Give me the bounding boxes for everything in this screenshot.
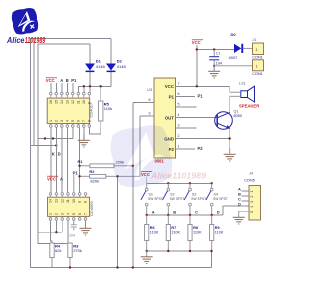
IC U2 pins top [49,193,87,198]
wire R2 junction down to bottom bus [117,176,119,267]
wire U3 pin3 stub [176,127,197,129]
IC U2 pin numbers bottom row [49,213,88,215]
svg-text:5: 5 [250,211,254,213]
svg-text:D: D [238,202,241,207]
wire speaker bottom to Q1 collector [229,96,231,113]
svg-text:4: 4 [66,120,70,122]
junction dots resistor bus [146,250,213,252]
svg-text:P1: P1 [169,94,175,99]
svg-text:4: 4 [66,213,70,215]
junction dots top bus [44,85,102,147]
svg-text:B: B [66,78,69,83]
wire IC2 pin4 to R3 [67,220,69,243]
wire U3 pin1 stub [176,148,196,150]
svg-text:VCC: VCC [192,40,201,45]
switch S4 [206,183,228,215]
wire mid-left vertical [33,39,35,146]
wire R5 top [100,86,102,101]
wire speaker top riser [229,86,231,92]
diode D2 [106,59,126,73]
svg-text:7: 7 [178,82,180,86]
wire IC1 pin7 gnd stub [83,127,85,140]
svg-text:A: A [60,177,63,182]
svg-text:8: 8 [149,98,151,102]
svg-text:U3: U3 [147,87,153,92]
switch S2 [163,183,185,215]
wire switch resistor bus [147,250,212,252]
svg-text:CON1: CON1 [252,56,263,60]
ground below C1 [208,65,220,78]
svg-text:B: B [173,210,176,215]
svg-text:VCC: VCC [165,84,175,89]
wire IC1 B stub [66,83,68,92]
svg-text:14: 14 [60,100,64,104]
wire U3 pin6 stub [176,96,196,98]
wire K net IC1 pin1 to IC2 pin1 [50,127,52,192]
wire IC1 pin5 stub [72,127,74,138]
svg-text:3: 3 [60,213,64,215]
wire VCC switch stub [146,176,148,183]
svg-text:LS1: LS1 [239,82,246,86]
wire IC2 pin2 down [55,220,57,232]
svg-text:VCC: VCC [47,177,56,182]
svg-text:SW SPST: SW SPST [213,197,228,201]
svg-text:P2: P2 [198,146,204,151]
wire node bus [147,214,223,216]
svg-text:SW SPST: SW SPST [170,197,185,201]
wire outer to R3 top [38,139,70,246]
svg-text:CD4069: CD4069 [89,201,94,216]
svg-text:2: 2 [178,134,180,138]
connector J4 [244,171,260,220]
diode D0 [229,32,253,60]
svg-text:1: 1 [49,213,53,215]
logo watermark text Alice1101989 [6,36,46,45]
svg-text:3: 3 [250,201,254,203]
svg-text:C1: C1 [216,52,221,56]
svg-text:13: 13 [66,100,70,104]
junction dot C1 J2 [213,65,215,67]
resistor R8 [188,215,202,251]
IC U2 pin numbers top row [49,199,88,203]
wire R5 bottom to IC1 pin8 [89,121,100,134]
net label VCC switches [141,171,152,176]
svg-text:8050: 8050 [234,114,242,118]
wire IC1 pin15 stub [55,83,57,92]
svg-text:D0: D0 [231,32,237,37]
wire IC2 pin7 gnd stub [85,220,87,227]
wire J4 pin3 stub [242,200,250,202]
diode D1 [85,59,105,73]
wire VCC stub [196,45,198,50]
wire IC1 pin3 to IC2 pin3 [61,127,63,192]
svg-text:D: D [58,152,61,157]
svg-text:K: K [52,152,55,157]
wire IC1 VCC stub [50,83,52,92]
svg-text:2: 2 [55,120,59,122]
net label VCC top [192,40,203,45]
svg-text:4148: 4148 [96,64,106,69]
svg-text:7: 7 [82,120,86,122]
svg-text:1: 1 [250,191,254,193]
wire J4 pin1 stub [242,190,250,192]
svg-text:D: D [217,210,220,215]
IC U1 pin numbers top row [49,100,92,104]
svg-text:110K: 110K [150,231,159,235]
wire D1 to bus and IC1 pin9 [89,72,91,93]
svg-text:SW SPST: SW SPST [148,197,163,201]
svg-text:R7: R7 [171,226,176,230]
svg-text:P1: P1 [198,94,204,99]
svg-text:62k: 62k [55,248,61,253]
svg-text:104: 104 [69,234,75,238]
wire rail under IC1 lower [30,145,56,147]
svg-text:P1: P1 [71,78,77,83]
svg-text:1101989: 1101989 [25,36,46,45]
svg-text:A: A [152,210,155,215]
wire rail under IC1 upper [38,138,73,140]
resistor R7 [166,215,180,251]
svg-text:4148: 4148 [117,64,127,69]
wire switch rail [147,182,212,184]
ground under IC1 [78,134,90,147]
wire U3 pin5 stub [176,106,197,108]
svg-text:11: 11 [66,199,70,203]
junction dots VCC rail [196,48,216,87]
svg-text:S1: S1 [148,192,153,196]
ground on resistor bus [141,251,153,264]
wire U3 pinB stub [140,115,154,117]
wire rail below IC2 [38,231,62,233]
svg-text:SPEAKER: SPEAKER [239,103,259,108]
transistor Q1 8050 [215,112,233,130]
svg-text:7: 7 [84,213,88,215]
svg-text:820k: 820k [90,179,99,184]
resistor R5 [99,101,113,121]
wire U3 pinA stub [133,101,154,103]
svg-text:5: 5 [72,213,76,215]
svg-text:6: 6 [77,120,81,122]
svg-text:R8: R8 [193,226,198,230]
wire IC1 pin4 to IC2 pin4 [66,127,68,192]
svg-text:270k: 270k [73,248,82,253]
svg-text:12: 12 [71,100,75,104]
junction dots node bus [146,214,213,216]
svg-text:13: 13 [55,199,59,203]
svg-text:12: 12 [60,199,64,203]
switch S3 [184,183,206,215]
svg-text:P1: P1 [73,170,79,175]
wire D riser to J4 [223,206,249,215]
svg-text:OUT: OUT [165,115,175,120]
wire VCC rail to D0 [197,49,234,51]
IC U1 CD4017 box [47,98,93,123]
svg-text:1: 1 [49,120,53,122]
svg-text:110K: 110K [171,231,180,235]
svg-text:S2: S2 [170,192,175,196]
net label VCC above IC1 [46,78,57,83]
resistor R4 [50,243,62,268]
svg-text:10: 10 [82,100,86,104]
svg-text:2: 2 [250,196,254,198]
resistor R1 [78,159,133,168]
wire IC2 pin1 to R4 [51,220,53,243]
ground below J4 [233,211,245,224]
svg-text:11: 11 [77,100,81,104]
net label VCC above IC2 [47,176,58,181]
wire D2 riser [110,39,112,64]
svg-text:104: 104 [216,61,222,65]
svg-text:110K: 110K [193,231,202,235]
svg-text:R6: R6 [150,226,155,230]
svg-text:6: 6 [178,92,180,96]
wire diode bus [78,86,111,92]
svg-text:R9: R9 [215,226,220,230]
svg-text:R2: R2 [89,169,95,174]
connector J2 [252,60,263,76]
junction dots R1 R2 [78,165,134,178]
wire J4 pin5 to ground [239,211,249,217]
faint logo watermark center [108,123,175,190]
wire U1 pinB vertical to R2 [139,116,141,176]
ground below Q1 [224,148,236,161]
IC U3 inside labels [164,84,175,152]
IC U1 pin numbers bottom row [49,120,92,122]
resistor R2 [80,169,141,183]
svg-text:R1: R1 [78,159,84,164]
svg-text:S3: S3 [192,192,197,196]
wire IC2 pin5 stub with P1 label [73,170,79,192]
svg-text:8: 8 [88,120,92,122]
svg-text:Q1: Q1 [234,109,239,113]
wire VCC vertical to U3 pin7 [196,50,198,87]
svg-text:A: A [60,78,63,83]
wire U3 pin7 to VCC rail and speaker [176,85,230,87]
svg-text:16: 16 [49,100,53,104]
wire outer top rail [30,39,111,268]
IC U3 9561 box [147,78,176,164]
wire D2 to bus [110,72,112,87]
svg-text:VCC: VCC [46,78,55,83]
IC U1 pins bottom [50,124,91,128]
svg-text:Alice: Alice [6,36,25,45]
resistor R6 [145,215,159,251]
svg-text:9: 9 [88,102,92,104]
svg-text:15: 15 [55,100,59,104]
wire riser to bottom bus [211,251,213,268]
svg-text:4: 4 [250,206,254,208]
capacitor C2 104 below IC2 [69,220,77,237]
connector J1 [252,38,263,60]
junction dot emitter node [229,137,231,139]
wire J2 stub [214,65,252,67]
svg-text:10: 10 [72,199,76,203]
svg-text:C: C [195,210,198,215]
svg-text:5: 5 [178,103,180,107]
svg-text:S4: S4 [213,192,218,196]
wire U3 pin2 to Q1 emitter node [176,138,230,140]
junction dots bottom bus [69,266,134,268]
IC U1 pins top [50,92,91,98]
svg-text:5: 5 [71,120,75,122]
svg-text:4: 4 [178,113,180,117]
wire C1 to ground [213,66,215,71]
resistor R9 [210,215,224,251]
wire U1 pinA long vertical [132,102,134,267]
wire IC2 pin3 down [61,220,63,232]
svg-text:J4: J4 [249,171,253,175]
svg-text:14: 14 [49,199,53,203]
svg-text:3: 3 [178,124,180,128]
svg-text:1: 1 [178,145,180,149]
svg-text:6: 6 [78,213,82,215]
wire J4 pin2 stub [242,195,250,197]
wire inner top rail [38,44,90,139]
svg-text:SW SPST: SW SPST [191,197,206,201]
ground under IC2 pin7 [80,222,92,235]
wire U3 pin4 to Q1 base [176,117,218,119]
svg-text:CON5: CON5 [244,178,255,182]
resistor R3 [68,243,82,268]
wire D1 riser [89,44,91,64]
junction dots switch rail [167,182,213,184]
wire IC1 A stub [61,83,63,92]
svg-text:9: 9 [149,112,151,116]
svg-text:3: 3 [60,120,64,122]
svg-text:9: 9 [78,201,82,203]
svg-text:110K: 110K [215,231,224,235]
wire IC1 pin10 to bus [83,86,85,92]
svg-text:2: 2 [55,213,59,215]
svg-text:Alice1101989: Alice1101989 [150,171,206,181]
svg-text:J1: J1 [253,38,257,42]
wire IC1 P1 stub [72,83,74,92]
wire bottom bus [30,267,211,269]
switch S1 [141,183,163,215]
svg-text:8: 8 [84,201,88,203]
transistor Q1 labels [234,109,242,118]
wire IC1 pin6 to IC2 pin6 through R1 R2 [79,127,81,192]
wire D net IC1 pin2 to IC2 pin2 [55,127,57,192]
wire Q1 emitter to ground [229,128,231,152]
junction dot below IC2 [55,231,57,233]
svg-text:4007: 4007 [229,55,239,60]
IC U2 pins bottom [49,216,87,220]
IC U2 CD4069 box [48,197,94,216]
svg-text:CON1: CON1 [252,72,263,76]
logo watermark top-left [11,7,40,36]
svg-text:110k: 110k [104,106,112,111]
capacitor C1 [209,50,222,66]
speaker LS1 [230,82,260,109]
U3 right pin numbers [149,82,180,149]
